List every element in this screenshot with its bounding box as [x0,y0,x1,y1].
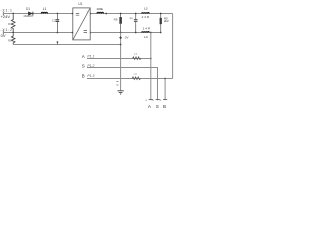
svg-text:+24V: +24V [1,14,11,19]
svg-text:24R: 24R [142,15,150,19]
svg-text:L5: L5 [134,52,138,56]
inductor L6 [132,72,141,80]
svg-text:R8: R8 [114,18,118,22]
inductor L4 [142,26,151,39]
svg-text:L1: L1 [43,7,47,11]
inductor L2 [96,7,103,14]
terminal X2:1 [145,98,153,102]
label A P1.1 [82,54,95,59]
node J12 A-tap [150,32,152,34]
svg-text:0V: 0V [125,36,129,40]
node J10 [160,13,162,15]
svg-text:B: B [163,104,166,109]
svg-text:R2: R2 [8,38,12,42]
label S P1.2 [82,64,95,69]
wire W1 +24V [3,13,73,15]
terminal X2:2 [152,98,160,102]
svg-text:24R: 24R [143,26,151,30]
resistor R8 [114,14,122,33]
node J4 [57,32,59,34]
svg-text:L6: L6 [134,72,138,76]
svg-text:A: A [82,54,85,59]
wire B [87,78,173,80]
wire A [87,58,151,60]
terminal X2:3 [159,98,167,102]
terminal X1:1 label [0,9,12,20]
rail OUT+ down [172,14,174,79]
terminal X1:2 label [0,28,12,38]
svg-text:U1: U1 [78,2,82,6]
ground rail [120,33,122,92]
svg-text:100u: 100u [96,7,103,11]
resistor R2 [8,34,15,45]
label S bottom [156,104,159,109]
diode D1 1N4007 [23,7,34,18]
rail A down [150,33,152,101]
svg-text:L4: L4 [144,35,148,39]
wire OUT+ [91,13,173,15]
node J3 [57,13,59,15]
inductor L5 [132,52,141,60]
wire OUT- [91,32,161,34]
resistor R5 [160,14,169,33]
svg-text:L3: L3 [144,7,148,11]
svg-text:D1: D1 [26,7,30,11]
svg-text:-X1:1: -X1:1 [0,9,12,13]
node J6 [120,13,122,15]
node J9 [135,32,137,34]
node J13 [120,44,122,46]
label B P1.3 [82,74,95,79]
svg-text:1u: 1u [129,16,133,20]
svg-text:C2: C2 [52,19,56,23]
node J5 [105,13,107,15]
svg-text:-X1:2: -X1:2 [0,28,12,32]
svg-text:1N4007: 1N4007 [23,14,34,18]
node J15 B-tap [164,78,166,80]
node J7 [120,32,122,34]
ground symbol [117,91,123,94]
wire W3 [13,44,120,46]
rail B down [164,79,166,101]
node J11 [160,32,162,34]
svg-text:2k2: 2k2 [164,19,169,23]
svg-text:S: S [82,64,85,69]
node J2 [12,32,14,34]
svg-text:S: S [156,104,159,109]
svg-text:R1: R1 [8,22,12,26]
node J8 [135,13,137,15]
label A bottom [148,104,152,109]
label B bottom [163,104,166,109]
svg-text:B: B [82,74,85,79]
capacitor C3 [129,14,137,33]
pin node U1 out+ [90,13,92,15]
net tap 0V [119,36,128,40]
net marks on ground rail [116,82,118,86]
svg-text:P1.3: P1.3 [87,74,94,78]
DC/DC converter U1 [73,2,90,40]
inductor L3 [142,7,150,20]
inductor L1 [41,7,47,14]
wire W2 0V [3,32,73,34]
pin node U1 in+ [72,13,74,15]
resistor R1 [8,15,15,33]
capacitor C2 [52,14,59,33]
svg-text:+: + [87,10,89,14]
pin node U1 in- [72,32,74,34]
net stub on W3 [57,41,59,44]
node J14 [150,58,152,60]
terminal X1:1 tick [2,12,4,16]
terminal X1:2 tick [2,31,4,35]
pin node U1 out- [90,32,92,34]
wire S [87,68,158,101]
node J1 [12,13,14,15]
